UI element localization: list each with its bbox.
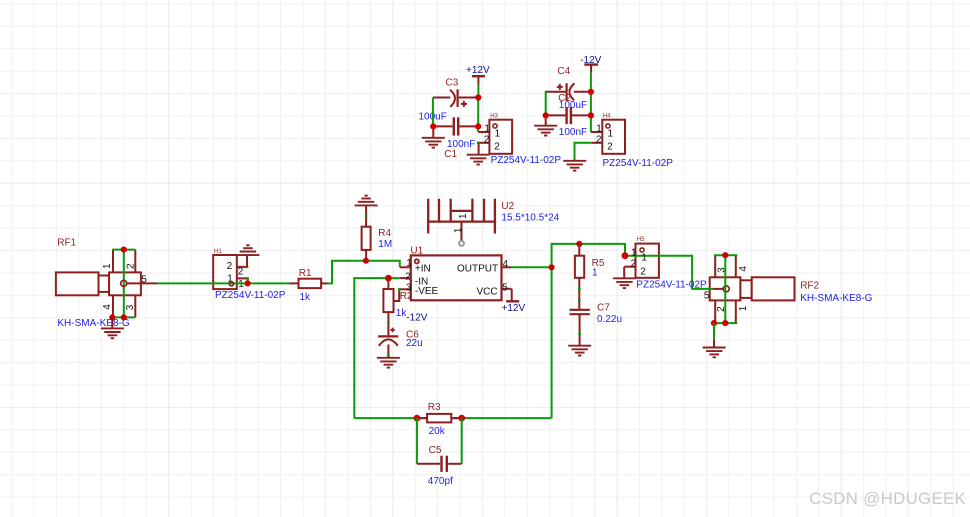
junction R3 left bbox=[414, 415, 421, 422]
wire feedback right leg bbox=[551, 267, 553, 418]
connector H3 PZ254V-11-02P bbox=[477, 114, 512, 154]
svg-text:15.5*10.5*24: 15.5*10.5*24 bbox=[501, 212, 559, 223]
svg-text:R1: R1 bbox=[299, 268, 312, 279]
resistor R2 1k bbox=[383, 278, 413, 335]
svg-text:KH-SMA-KE8-G: KH-SMA-KE8-G bbox=[57, 318, 129, 329]
svg-text:2: 2 bbox=[405, 271, 411, 282]
junction RF1 bottom center bbox=[121, 314, 127, 320]
junction R3 right bbox=[458, 415, 465, 422]
ground (RF1) bbox=[101, 317, 124, 338]
power flag -12V (C4 rail) bbox=[580, 55, 601, 73]
svg-text:+12V: +12V bbox=[466, 65, 490, 76]
ground inverted (H1 pin2) bbox=[236, 245, 259, 255]
ground (C1 left) bbox=[422, 126, 445, 147]
wire RF2 center vertical bbox=[724, 255, 726, 323]
svg-text:H4: H4 bbox=[603, 114, 611, 120]
svg-text:3: 3 bbox=[406, 283, 412, 294]
junction H5 pin1 bbox=[622, 252, 629, 259]
resistor R5 1 bbox=[575, 244, 605, 309]
svg-text:H5: H5 bbox=[637, 237, 645, 243]
wire RF2 bottom bracket bbox=[714, 322, 737, 324]
power flag +12V (U1 VCC) bbox=[502, 289, 526, 314]
junction R2 top bbox=[385, 275, 392, 282]
svg-text:RF2: RF2 bbox=[800, 281, 819, 292]
ground (H5 pin2) bbox=[613, 278, 636, 288]
svg-text:VCC: VCC bbox=[477, 286, 498, 297]
svg-text:1: 1 bbox=[102, 263, 113, 269]
svg-text:R4: R4 bbox=[378, 228, 391, 239]
svg-text:2: 2 bbox=[631, 259, 637, 270]
ground (H4 pin2) bbox=[563, 161, 586, 171]
wire +12V flag to C3 node bbox=[477, 85, 479, 98]
svg-text:C1: C1 bbox=[444, 149, 457, 160]
junction C4 right bbox=[588, 89, 594, 95]
wire H4 pin2 to ground bbox=[575, 143, 592, 161]
svg-text:KH-SMA-KE8-G: KH-SMA-KE8-G bbox=[800, 293, 872, 304]
svg-text:1: 1 bbox=[592, 268, 598, 279]
svg-text:1: 1 bbox=[238, 279, 244, 290]
junction RF1 top bbox=[121, 247, 127, 253]
H1 pin1 circle bbox=[229, 282, 233, 286]
wire U1 OUTPUT right bbox=[512, 266, 552, 268]
svg-text:C5: C5 bbox=[429, 445, 442, 456]
capacitor C1 100nF bbox=[433, 117, 478, 160]
junction output node bbox=[549, 264, 555, 270]
shield U2 bbox=[427, 199, 559, 246]
svg-text:0.22u: 0.22u bbox=[597, 314, 622, 325]
svg-text:2: 2 bbox=[640, 267, 646, 278]
connector RF1 KH-SMA-KE8-G bbox=[56, 237, 141, 317]
svg-text:3: 3 bbox=[125, 304, 136, 310]
svg-text:PZ254V-11-02P: PZ254V-11-02P bbox=[603, 158, 674, 169]
wire output node up and over bbox=[552, 244, 625, 267]
svg-text:PZ254V-11-02P: PZ254V-11-02P bbox=[636, 280, 707, 291]
svg-text:1: 1 bbox=[453, 227, 464, 233]
power flag +12V (C3 rail) bbox=[466, 65, 490, 84]
svg-text:5: 5 bbox=[502, 283, 508, 294]
op-amp U1 bbox=[399, 246, 512, 301]
svg-text:+IN: +IN bbox=[415, 264, 431, 275]
svg-text:2: 2 bbox=[126, 263, 137, 269]
wire C3 right rail down bbox=[477, 98, 479, 133]
svg-text:2: 2 bbox=[596, 135, 602, 146]
svg-text:U2: U2 bbox=[501, 201, 514, 212]
svg-text:C4: C4 bbox=[557, 66, 570, 77]
svg-text:4: 4 bbox=[738, 266, 749, 272]
junction R4 bottom bbox=[363, 258, 369, 264]
ground (C7) bbox=[568, 346, 591, 356]
connector H4 PZ254V-11-02P bbox=[591, 114, 625, 154]
junction RF2 bottom center bbox=[722, 320, 728, 326]
wire RF2 top bracket bbox=[714, 254, 737, 256]
resistor R1 1k bbox=[289, 268, 328, 303]
capacitor C5 470pf bbox=[417, 445, 462, 487]
svg-text:22u: 22u bbox=[406, 338, 423, 349]
connector RF2 KH-SMA-KE8-G body bbox=[710, 255, 795, 323]
wire RF2 ground stem bbox=[713, 323, 715, 339]
H5 pin1 circle and numbers bbox=[631, 247, 648, 277]
wire RF1 bottom bracket bbox=[112, 316, 135, 318]
svg-text:1: 1 bbox=[608, 128, 614, 139]
junction C1 left bbox=[430, 123, 436, 129]
svg-text:1: 1 bbox=[631, 247, 637, 258]
connector H5 PZ254V-11-02P bbox=[624, 237, 659, 278]
svg-text:-VEE: -VEE bbox=[415, 286, 439, 297]
connector H1 PZ254V-11-02P bbox=[213, 249, 249, 290]
svg-text:2: 2 bbox=[607, 142, 613, 153]
svg-text:1k: 1k bbox=[300, 292, 312, 303]
svg-text:20k: 20k bbox=[429, 426, 446, 437]
wire RF1 center vertical bbox=[123, 250, 125, 318]
RF1 pin 5 bbox=[121, 274, 158, 286]
resistor R3 20k bbox=[417, 402, 462, 437]
resistor R4 1M bbox=[362, 206, 393, 261]
wire H5 pin1 through to RF2 pin5 bbox=[625, 256, 714, 289]
junction C2 left bbox=[543, 112, 549, 118]
svg-text:2: 2 bbox=[484, 135, 490, 146]
svg-text:1M: 1M bbox=[378, 239, 392, 250]
ground (C2 left) bbox=[534, 115, 557, 135]
junction C2 right bbox=[588, 112, 594, 118]
junction RF2 bottom left bbox=[711, 320, 717, 326]
capacitor C3 100uF polarized bbox=[419, 77, 479, 122]
capacitor C6 22u polarized bbox=[378, 328, 423, 358]
wire RF1 pin5 to R1 bbox=[158, 282, 290, 284]
svg-text:+12V: +12V bbox=[502, 303, 526, 314]
svg-text:2: 2 bbox=[494, 142, 500, 153]
wire H3 pin2 to ground bbox=[478, 143, 480, 154]
RF2 pin 5 bbox=[704, 286, 729, 302]
ground (H3 pin2) bbox=[467, 155, 490, 165]
svg-text:PZ254V-11-02P: PZ254V-11-02P bbox=[215, 290, 286, 301]
svg-text:-12V: -12V bbox=[406, 312, 427, 323]
svg-text:5: 5 bbox=[141, 274, 147, 285]
svg-text:2: 2 bbox=[227, 261, 233, 272]
capacitor C7 0.22u bbox=[570, 302, 623, 345]
svg-text:4: 4 bbox=[503, 259, 509, 270]
svg-text:RF1: RF1 bbox=[57, 237, 76, 248]
svg-text:1: 1 bbox=[641, 253, 647, 264]
wire RF1 top bracket bbox=[112, 249, 135, 251]
svg-text:100nF: 100nF bbox=[559, 127, 587, 138]
svg-text:PZ254V-11-02P: PZ254V-11-02P bbox=[491, 155, 562, 166]
ground (C6) bbox=[377, 358, 400, 368]
wire remnant -VEE bbox=[398, 288, 401, 291]
svg-text:470pf: 470pf bbox=[428, 476, 453, 487]
svg-text:5: 5 bbox=[704, 291, 710, 302]
wire C5 right drop bbox=[461, 418, 463, 464]
svg-text:C7: C7 bbox=[597, 302, 610, 313]
svg-text:OUTPUT: OUTPUT bbox=[457, 264, 498, 275]
ground inverted (R4 top) bbox=[355, 196, 378, 206]
junction H1 pin1 bbox=[245, 280, 251, 286]
wire -IN net (feedback left leg) bbox=[354, 278, 399, 418]
svg-text:H3: H3 bbox=[490, 114, 498, 120]
wire U1 -VEE to R2 bbox=[394, 289, 400, 301]
svg-text:1: 1 bbox=[484, 124, 490, 135]
capacitor C2 100nF bbox=[546, 93, 591, 138]
junction RF2 top bbox=[722, 252, 728, 258]
svg-text:1: 1 bbox=[738, 305, 749, 311]
wire C3 left to C1 left bbox=[432, 98, 434, 127]
svg-text:1: 1 bbox=[596, 124, 602, 135]
svg-text:1: 1 bbox=[458, 213, 469, 219]
wire C5 left drop bbox=[416, 418, 418, 464]
wire -12V rail down bbox=[590, 72, 592, 132]
svg-text:1: 1 bbox=[406, 258, 412, 269]
svg-text:CSDN @HDUGEEK: CSDN @HDUGEEK bbox=[809, 489, 966, 508]
junction R5 top bbox=[576, 241, 582, 247]
capacitor C4 100uF polarized bbox=[545, 66, 591, 101]
junction C3 right bbox=[475, 94, 481, 100]
wire C4 left to C2 left bbox=[545, 92, 547, 116]
svg-text:100uF: 100uF bbox=[559, 100, 587, 111]
ground (RF2) bbox=[703, 339, 726, 357]
junction C1 right bbox=[475, 123, 481, 129]
svg-text:R3: R3 bbox=[428, 402, 441, 413]
svg-text:C3: C3 bbox=[446, 77, 459, 88]
junction RF1 bottom left bbox=[109, 314, 115, 320]
wire R1 to U1 +IN bbox=[328, 261, 400, 284]
svg-text:1: 1 bbox=[495, 128, 501, 139]
svg-text:2: 2 bbox=[238, 266, 244, 277]
wire bottom feedback bbox=[354, 417, 551, 419]
svg-text:4: 4 bbox=[102, 304, 113, 310]
